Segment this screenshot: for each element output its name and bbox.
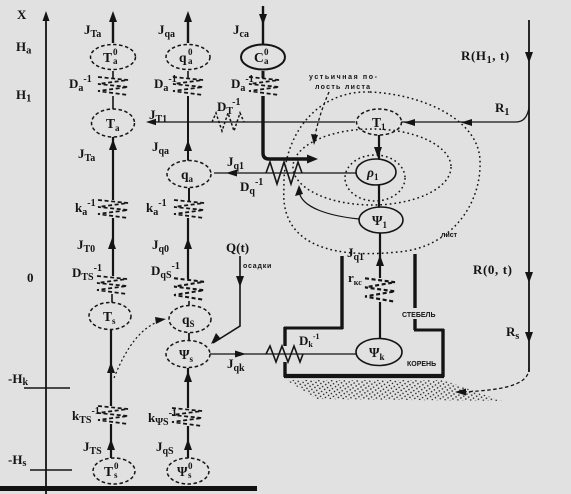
node qa0 xyxy=(166,45,210,70)
node Ts xyxy=(89,303,131,330)
wire resistor to qs xyxy=(188,301,190,307)
svg-text:-Hs: -Hs xyxy=(8,452,26,469)
wire Jqs segment xyxy=(184,426,192,458)
resistor DT^-1 dotted zigzag xyxy=(212,113,244,131)
svg-text:Da-1: Da-1 xyxy=(69,74,92,94)
node psik xyxy=(356,339,402,366)
svg-text:ka-1: ka-1 xyxy=(75,198,96,218)
dashed pointer arrow from label xyxy=(311,92,329,145)
svg-text:DTS-1: DTS-1 xyxy=(72,263,102,283)
leaf small dotted ellipse around rho1 xyxy=(345,155,405,201)
svg-text:устьичная по-: устьичная по- xyxy=(309,74,379,81)
wire col3 thick L with arrow into leaf xyxy=(263,96,318,164)
svg-text:Rs: Rs xyxy=(506,324,519,342)
resistor Dk^-1 solid zigzag xyxy=(266,346,303,362)
node Ta xyxy=(92,109,135,137)
node Ca0 xyxy=(241,45,285,70)
svg-text:Jqa: Jqa xyxy=(152,139,169,157)
svg-text:Jca: Jca xyxy=(233,22,249,40)
svg-text:Jq1: Jq1 xyxy=(227,154,244,172)
stem left wall xyxy=(340,256,343,329)
wire T1 to rho1 with down arrow xyxy=(374,135,382,159)
svg-text:JTS: JTS xyxy=(83,439,102,457)
resistor Dq^-1 solid zigzag xyxy=(266,162,302,184)
wire Ta0 to resistor xyxy=(112,71,114,78)
resistor ka^-1 col1 xyxy=(98,200,128,218)
svg-text:Q(t): Q(t) xyxy=(226,240,249,255)
svg-text:H1: H1 xyxy=(16,87,31,105)
wire Jq1 horizontal qa to rho1 xyxy=(214,170,357,177)
svg-text:Dk-1: Dk-1 xyxy=(299,332,320,349)
svg-text:JT0: JT0 xyxy=(77,237,95,255)
dashed bottom curve of R line with arrow xyxy=(455,368,529,396)
svg-text:JqS: JqS xyxy=(156,439,174,457)
R line arrowhead 3 xyxy=(525,332,533,343)
leaf outer dotted blob xyxy=(284,92,480,254)
R line arrowhead 1 xyxy=(525,52,533,63)
svg-text:ka-1: ka-1 xyxy=(146,198,167,218)
resistor Da^-1 col2 xyxy=(173,77,203,95)
svg-text:JTa: JTa xyxy=(78,146,95,164)
wire col2 Jq0 segment xyxy=(184,218,192,279)
svg-text:DT-1: DT-1 xyxy=(217,97,241,117)
wire resistor to Ts xyxy=(111,294,113,303)
wire Ca0 to resistor thick xyxy=(262,71,265,78)
wire T1 to R line with hook xyxy=(401,107,529,126)
svg-text:a: a xyxy=(188,56,193,66)
wire rho1 to psi1 xyxy=(378,185,380,208)
root box top-left horizontal xyxy=(284,327,343,330)
svg-text:Ψ: Ψ xyxy=(177,464,188,479)
root box left wall lower xyxy=(283,362,286,377)
tick line -Hk xyxy=(24,387,70,389)
leaf middle dotted ellipse xyxy=(293,129,451,205)
svg-text:Jq0: Jq0 xyxy=(152,237,169,255)
node Ts0 xyxy=(93,458,135,484)
root box right horizontal xyxy=(414,329,444,332)
resistor kTs^-1 xyxy=(98,406,128,424)
svg-text:T: T xyxy=(103,50,112,65)
svg-text:s: s xyxy=(114,470,118,480)
R line arrowhead 2 xyxy=(525,272,533,283)
dotted curve Ts to qs xyxy=(114,317,166,378)
resistor Da^-1 col3 xyxy=(249,77,279,95)
wire psis to psik Jqk xyxy=(210,351,356,358)
svg-text:-Hk: -Hk xyxy=(8,371,28,388)
svg-text:T: T xyxy=(104,464,113,479)
wire JT1 horizontal Ta to T1 xyxy=(146,119,355,125)
root box bottom xyxy=(284,374,444,378)
svg-text:0: 0 xyxy=(27,270,34,285)
svg-text:kΨS-1: kΨS-1 xyxy=(148,408,177,428)
node qs xyxy=(169,306,211,333)
wire col2 top arrow Jqa xyxy=(184,11,192,43)
wire col3 top arrow Jca pointing down xyxy=(259,6,267,44)
svg-text:Jqa: Jqa xyxy=(158,22,175,40)
resistor Da^-1 col1 xyxy=(98,77,128,95)
node rho1 xyxy=(356,159,396,185)
svg-text:КОРЕНЬ: КОРЕНЬ xyxy=(407,361,436,368)
svg-text:лист: лист xyxy=(441,232,458,239)
wire qa0 to resistor xyxy=(187,71,189,78)
svg-text:s: s xyxy=(188,470,192,480)
wire resistor to psik xyxy=(379,302,381,340)
tick line -Hs xyxy=(30,469,72,471)
R vertical line right xyxy=(528,20,530,372)
label ustichnaya polost lista xyxy=(309,74,379,91)
svg-text:q: q xyxy=(179,50,187,65)
resistor ka^-1 col2 xyxy=(174,200,204,218)
svg-text:Jqk: Jqk xyxy=(227,356,245,374)
wire col1 JT0 segment xyxy=(108,218,116,276)
node Ta0 xyxy=(91,45,136,70)
wire psi1 down to psik with Jq1 arrow and resistor xyxy=(376,233,384,278)
wire resistor down to qa crossing JT1 line xyxy=(184,96,192,162)
root box left wall upper xyxy=(283,327,286,346)
wire below Ta with arrow JTa xyxy=(109,137,117,200)
bottom black bar xyxy=(0,486,257,491)
node T1 xyxy=(357,109,402,135)
wire below psis with up arrow xyxy=(184,368,192,408)
wire Q(t) down with arrow to psis xyxy=(211,256,244,344)
svg-text:X: X xyxy=(17,7,27,22)
svg-text:Dq-1: Dq-1 xyxy=(240,177,263,197)
svg-text:a: a xyxy=(113,56,118,66)
wire JTs segment xyxy=(107,424,115,458)
resistor r_ks xyxy=(365,278,395,301)
resistor kpsis^-1 xyxy=(172,408,202,426)
svg-text:Ha: Ha xyxy=(16,39,32,57)
wire qs to psis xyxy=(188,333,190,341)
wire below Ts with up arrow xyxy=(107,330,115,406)
label stebel with bg xyxy=(399,308,440,319)
svg-text:C: C xyxy=(254,50,264,65)
wire below qa xyxy=(188,188,190,201)
root hatch region xyxy=(286,380,502,401)
resistor Dqs^-1 xyxy=(174,278,204,300)
node qa xyxy=(167,161,211,188)
node psi_s0 xyxy=(167,458,209,484)
svg-text:a: a xyxy=(264,56,269,66)
svg-text:kTS-1: kTS-1 xyxy=(72,406,100,426)
svg-text:лость листа: лость листа xyxy=(315,84,371,91)
svg-text:JTa: JTa xyxy=(84,22,101,40)
stem right wall xyxy=(413,254,416,330)
resistor DTs^-1 xyxy=(97,276,127,294)
wire resistor to Ta xyxy=(112,96,114,109)
svg-text:R(H1, t): R(H1, t) xyxy=(461,48,510,66)
solid curve psi1 to Dq resistor with up arrow xyxy=(295,185,359,219)
svg-text:R(0, t): R(0, t) xyxy=(473,262,513,277)
node psi_s xyxy=(166,341,210,368)
X axis vertical line xyxy=(43,11,50,494)
root box right wall xyxy=(441,329,444,377)
svg-text:осадки: осадки xyxy=(243,263,272,270)
svg-text:rкс: rкс xyxy=(348,270,362,287)
svg-text:Jq1: Jq1 xyxy=(347,245,364,263)
node psi1 xyxy=(359,207,403,233)
wire col1 top arrow JTa xyxy=(109,11,117,43)
svg-text:R1: R1 xyxy=(495,100,509,118)
svg-text:СТЕБЕЛЬ: СТЕБЕЛЬ xyxy=(402,312,435,319)
